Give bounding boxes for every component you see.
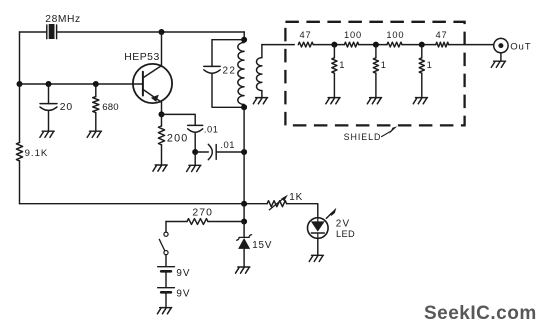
- svg-text:OuT: OuT: [510, 41, 531, 52]
- resistor R2 680: [93, 97, 99, 113]
- resistor R9 270: [187, 219, 208, 225]
- wire 270 rail: [166, 221, 244, 223]
- node att junction B: [373, 42, 379, 48]
- wire L2 to shield: [262, 44, 294, 46]
- svg-text:20: 20: [60, 102, 73, 113]
- svg-text:9V: 9V: [176, 268, 190, 279]
- resistor R4 47: [298, 42, 313, 47]
- wire riser lower: [243, 152, 245, 204]
- svg-text:SHIELD: SHIELD: [344, 132, 382, 142]
- ground under C2: [187, 165, 201, 171]
- svg-text:.01: .01: [220, 139, 235, 150]
- battery B1 9V: [158, 266, 175, 268]
- node zener junction: [241, 219, 247, 225]
- ground under shunt 2: [367, 98, 381, 104]
- wire B1 to B2: [165, 273, 167, 288]
- resistor R7 47: [436, 42, 449, 47]
- svg-text:1K: 1K: [289, 192, 303, 203]
- wire top bend to tank: [243, 32, 245, 40]
- node emitter junction: [159, 111, 165, 117]
- node cap20 junction: [46, 81, 52, 87]
- LED emission arrow: [326, 213, 332, 219]
- wire B2 ground lead: [165, 294, 167, 308]
- svg-text:680: 680: [102, 102, 119, 113]
- svg-text:270: 270: [192, 207, 213, 218]
- node att junction C: [419, 42, 425, 48]
- resistor R10 1: [419, 58, 424, 73]
- ground under shunt 1: [326, 98, 340, 104]
- wire 680 top lead: [95, 84, 97, 97]
- svg-text:9.1K: 9.1K: [25, 148, 49, 159]
- wire collector riser: [161, 32, 163, 66]
- svg-text:22: 22: [223, 66, 237, 77]
- svg-text:1: 1: [427, 59, 432, 70]
- wire C2 ground lead: [194, 152, 196, 165]
- svg-text:100: 100: [386, 30, 404, 40]
- svg-text:LED: LED: [336, 229, 355, 239]
- connector J1 OUT: [494, 38, 508, 52]
- capacitor C1 20: [40, 104, 57, 111]
- svg-text:1: 1: [381, 59, 386, 70]
- wire C2 to C3: [195, 151, 208, 153]
- wire LED ground lead: [317, 238, 319, 255]
- capacitor C4 22: [204, 66, 220, 73]
- ground under J1: [491, 61, 505, 67]
- svg-text:SeekIC.com: SeekIC.com: [424, 303, 537, 324]
- wire 200 bottom lead: [161, 145, 163, 165]
- svg-text:15V: 15V: [252, 240, 272, 251]
- shield pointer arrow: [382, 131, 392, 137]
- node C2 bottom junction: [192, 149, 198, 155]
- resistor R5 100: [344, 42, 358, 47]
- ground under D1: [236, 267, 250, 273]
- node collector top junction: [159, 29, 165, 35]
- wire R7 to output: [449, 44, 494, 46]
- wire shunt 3 bottom lead: [421, 73, 423, 97]
- svg-text:28MHz: 28MHz: [45, 14, 80, 25]
- svg-text:.01: .01: [204, 123, 219, 134]
- svg-text:47: 47: [436, 30, 448, 40]
- svg-text:200: 200: [167, 133, 189, 145]
- wire switch to B1: [165, 255, 167, 267]
- svg-text:1: 1: [339, 59, 344, 70]
- node tank top junction: [241, 37, 247, 43]
- wire R4 to R5: [313, 44, 344, 46]
- svg-text:100: 100: [344, 30, 362, 40]
- svg-text:9V: 9V: [176, 288, 190, 299]
- wire left rail lower: [19, 84, 21, 204]
- wire shunt 3 top lead: [421, 45, 423, 58]
- node C3 right junction: [241, 149, 247, 155]
- wire C4 bottom lead: [212, 73, 244, 107]
- battery B2 9V: [158, 287, 175, 289]
- crystal Y1 28MHz: [47, 25, 57, 39]
- resistor R6 100: [387, 42, 402, 47]
- wire shunt 1 top lead: [333, 45, 335, 58]
- wire emitter lead: [161, 102, 163, 114]
- wire 270 to switch: [165, 222, 167, 233]
- svg-text:47: 47: [300, 30, 312, 40]
- ground under L2: [253, 98, 267, 104]
- ground under C1: [40, 131, 54, 137]
- transistor Q1 HEP53: [133, 64, 172, 103]
- shield enclosure (dashed): [285, 22, 464, 126]
- diode D1 zener 15V: [243, 222, 245, 238]
- wire shunt 1 bottom lead: [333, 73, 335, 97]
- wire bottom rail: [20, 203, 268, 205]
- wire pot to LED: [287, 204, 318, 218]
- wire cap20 top lead: [48, 84, 50, 104]
- resistor R9 1: [373, 58, 378, 73]
- wire base rail: [20, 83, 143, 85]
- node tank bottom junction: [241, 104, 247, 110]
- capacitor C2 .01: [188, 125, 203, 132]
- resistor R3 200: [158, 126, 164, 145]
- ground under shunt 3: [413, 98, 427, 104]
- wire tank top to C4: [212, 39, 244, 41]
- wire top rail: [20, 31, 245, 33]
- wire shunt 2 bottom lead: [375, 73, 377, 97]
- node bottom rail junction: [241, 201, 247, 207]
- wire R6 to R7: [402, 44, 436, 46]
- wire R5 to R6: [359, 44, 387, 46]
- ground under R2: [87, 131, 101, 137]
- potentiometer R11 1K: [267, 201, 287, 207]
- resistor R1 9.1K: [16, 143, 22, 161]
- wire left rail upper: [19, 32, 21, 84]
- svg-text:2V: 2V: [336, 218, 350, 229]
- node base rail junction: [17, 81, 23, 87]
- ground under batteries: [157, 308, 171, 314]
- resistor R8 1: [332, 58, 337, 73]
- wire C2 bottom lead: [194, 132, 196, 152]
- inductor L1 primary: [238, 43, 244, 105]
- wire emitter to C2: [162, 114, 196, 125]
- wire 680 bottom lead: [95, 113, 97, 131]
- inductor L2 secondary: [261, 45, 263, 58]
- wire cap20 bottom lead: [48, 111, 50, 131]
- node att junction A: [331, 42, 337, 48]
- wire C4 top lead: [211, 40, 213, 67]
- wire riser upper: [243, 107, 245, 152]
- svg-text:HEP53: HEP53: [124, 52, 159, 63]
- ground under R3: [153, 165, 167, 171]
- wire riser to zener: [243, 204, 245, 222]
- node 680 junction: [93, 81, 99, 87]
- wire shunt 2 top lead: [375, 45, 377, 58]
- switch S1: [164, 232, 168, 236]
- LED D2 2V: [308, 218, 329, 239]
- capacitor C3 .01: [208, 144, 212, 159]
- ground under D2: [309, 255, 323, 261]
- wire J1 ground lead: [500, 53, 502, 61]
- wire 200 top lead: [161, 114, 163, 126]
